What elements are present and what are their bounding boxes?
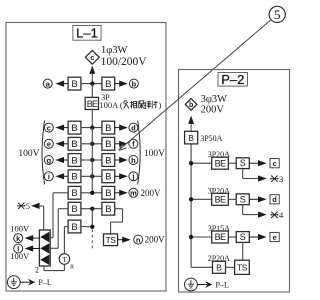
svg-text:TS: TS (237, 263, 248, 273)
svg-text:g: g (47, 156, 52, 165)
svg-text:T: T (62, 255, 67, 264)
svg-text:100V: 100V (10, 224, 30, 234)
svg-text:5: 5 (274, 7, 281, 22)
svg-text:2: 2 (35, 265, 39, 274)
svg-text:h: h (131, 156, 136, 165)
svg-text:B: B (71, 222, 77, 233)
svg-text:e: e (273, 233, 277, 242)
svg-text:m: m (130, 189, 137, 198)
svg-text:B: B (105, 123, 111, 134)
svg-text:S: S (240, 232, 246, 242)
svg-text:100/200V: 100/200V (101, 56, 148, 68)
svg-text:BE: BE (215, 195, 226, 205)
svg-text:): ) (159, 100, 162, 110)
svg-text:n: n (136, 235, 141, 244)
svg-text:100V: 100V (144, 149, 165, 159)
svg-text:P–L: P–L (216, 281, 229, 290)
svg-text:d: d (131, 123, 136, 132)
svg-text:c: c (90, 55, 94, 62)
svg-text:B: B (71, 79, 77, 90)
svg-text:200V: 200V (145, 235, 166, 245)
svg-text:100V: 100V (18, 149, 39, 159)
svg-text:3P50A: 3P50A (200, 134, 222, 143)
svg-text:B: B (188, 133, 194, 143)
svg-text:f: f (132, 140, 135, 149)
svg-text:BE: BE (215, 158, 226, 168)
svg-text:TS: TS (105, 235, 116, 245)
svg-text:4: 4 (279, 210, 284, 220)
svg-text:B: B (71, 155, 77, 166)
svg-text:5: 5 (26, 201, 30, 211)
svg-text:d: d (272, 195, 277, 204)
svg-text:i: i (48, 172, 50, 181)
svg-text:B: B (71, 123, 77, 134)
svg-text:1φ3W: 1φ3W (101, 45, 128, 56)
svg-text:200V: 200V (141, 188, 162, 198)
svg-text:c: c (273, 159, 277, 168)
svg-text:L–1: L–1 (76, 26, 98, 41)
svg-text:P–2: P–2 (221, 72, 244, 87)
svg-text:BE: BE (215, 232, 226, 242)
svg-text:b: b (132, 79, 137, 88)
svg-text:R: R (70, 265, 74, 271)
svg-text:S: S (240, 158, 246, 168)
svg-text:S: S (240, 194, 246, 204)
svg-text:B: B (71, 172, 77, 183)
svg-text:B: B (105, 204, 111, 215)
svg-text:100V: 100V (10, 251, 30, 261)
svg-text:B: B (105, 139, 111, 150)
svg-text:e: e (47, 140, 51, 149)
svg-text:3: 3 (279, 174, 283, 184)
svg-text:B: B (71, 204, 77, 215)
svg-text:B: B (105, 172, 111, 183)
svg-text:b: b (189, 102, 193, 109)
svg-text:B: B (105, 79, 111, 90)
svg-text:BE: BE (87, 99, 98, 109)
svg-text:B: B (105, 188, 111, 199)
svg-text:200V: 200V (201, 105, 225, 116)
svg-text:j: j (131, 172, 134, 181)
svg-text:3φ3W: 3φ3W (201, 94, 228, 105)
svg-text:B: B (216, 262, 222, 272)
svg-text:B: B (105, 155, 111, 166)
svg-text:100A (: 100A ( (99, 100, 123, 110)
svg-text:P–L: P–L (38, 278, 51, 287)
svg-text:B: B (71, 188, 77, 199)
svg-text:B: B (71, 139, 77, 150)
svg-text:c: c (47, 123, 51, 132)
